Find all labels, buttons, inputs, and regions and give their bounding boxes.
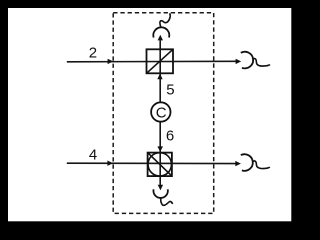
svg-text:C: C <box>156 104 167 121</box>
svg-text:6: 6 <box>166 128 174 145</box>
svg-text:5: 5 <box>166 82 174 99</box>
svg-text:4: 4 <box>89 146 97 163</box>
svg-text:2: 2 <box>89 45 97 62</box>
